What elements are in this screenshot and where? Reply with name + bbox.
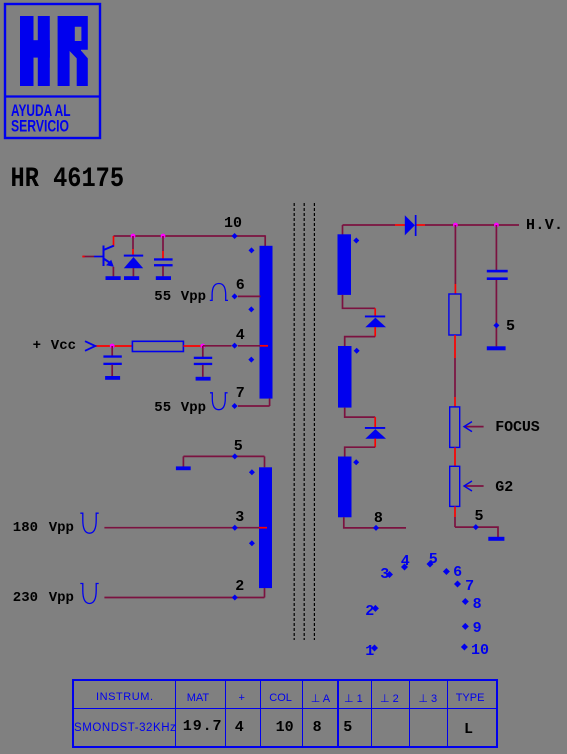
- wire: red stub after HV diode: [416, 224, 425, 226]
- pinout diamond 4: [401, 564, 408, 571]
- tap diamond between 3 and 2: [249, 540, 255, 546]
- secondary winding S1: [338, 234, 352, 295]
- G2 wiper arrow: [464, 481, 484, 491]
- table column line 3: [260, 681, 261, 746]
- label FOCUS: [495, 419, 540, 436]
- node: junction dot cap C2: [110, 344, 115, 349]
- label pin 4: [236, 327, 245, 344]
- node: junction dot on rail (diode branch): [131, 234, 136, 239]
- wire: C3 to ground: [202, 365, 204, 377]
- capacitor C2: [103, 355, 121, 365]
- wire: lead to snubber cap: [162, 236, 164, 259]
- capacitor C4 HV: [487, 270, 508, 280]
- label 230 Vpp: [13, 590, 38, 606]
- table column line 1: [175, 681, 176, 746]
- wire: corner down to secondary S1: [342, 225, 344, 235]
- wire: S2 bottom elbow to diode D4: [345, 408, 376, 418]
- table column line 4: [302, 681, 303, 746]
- ground (C3): [196, 377, 211, 381]
- tap diamond S3: [353, 459, 359, 465]
- table column line 7: [409, 681, 410, 746]
- chassis stub (pin5 return): [176, 466, 191, 470]
- pinout label 4: [401, 553, 410, 570]
- wire: diode to ground: [132, 268, 134, 276]
- pin 3 diamond: [232, 525, 238, 531]
- header ⊥1: [344, 692, 363, 705]
- pinout label 3: [380, 566, 389, 583]
- pin 5 diamond (HV return): [493, 322, 499, 328]
- label G2: [495, 479, 513, 496]
- label pin 6: [236, 277, 245, 294]
- label + Vcc: [33, 338, 41, 354]
- pinout diamond 9: [462, 623, 469, 630]
- pin 4 diamond: [232, 343, 238, 349]
- header INSTRUM.: [96, 691, 154, 703]
- pin 6 diamond: [232, 293, 238, 299]
- pin 5 diamond: [232, 453, 238, 459]
- pinout diamond 1: [371, 645, 378, 652]
- logo letter H: [20, 16, 50, 86]
- wire: cap to ground: [162, 266, 164, 276]
- cell TYPE value L: [464, 721, 473, 738]
- wire: pin 2 row: [104, 597, 264, 599]
- wire: pin 3 row: [104, 527, 259, 529]
- wire: red lead into D3: [374, 308, 376, 315]
- wire: pin5 left drop: [182, 456, 184, 466]
- header ⊥3: [418, 692, 437, 705]
- Vcc arrow chevron: [85, 341, 95, 351]
- diode D2 HV rectifier: [405, 215, 417, 236]
- table column line 8: [447, 681, 448, 746]
- tap diamond between 6 and 4: [248, 306, 254, 312]
- secondary winding S3: [338, 457, 352, 518]
- node: junction dot on rail (cap branch): [161, 234, 166, 239]
- tap diamond S2: [354, 348, 360, 354]
- pinout diamond 3: [386, 571, 393, 578]
- label pin 3: [235, 509, 244, 526]
- svg-text:SERVICIO: SERVICIO: [11, 118, 69, 136]
- wire: elbow to S3 top: [345, 447, 376, 456]
- wire: HV rail: [343, 224, 396, 226]
- tap diamond S1: [353, 238, 359, 244]
- wire: pin2 corner up to W2 bottom: [264, 588, 266, 597]
- label 55 Vpp (pin7): [154, 400, 171, 416]
- wire: lead to bleeder resistor: [454, 225, 456, 294]
- FOCUS wiper arrow: [464, 422, 484, 432]
- wire: lead to damper diode: [132, 236, 134, 255]
- label pin 5 (HV cap): [506, 318, 515, 335]
- tap diamond near pin10: [249, 247, 255, 253]
- pinout label 9: [473, 620, 482, 637]
- pin 10 diamond: [232, 233, 238, 239]
- wire: R2 to FOCUS pot: [454, 335, 456, 407]
- cell ⊥1 value 5: [343, 719, 352, 736]
- capacitor C1 snubber: [154, 258, 173, 266]
- label 180 Vpp: [13, 520, 38, 536]
- cell SMONDST-32KHz: [74, 722, 176, 734]
- ground (damper diode): [124, 276, 139, 280]
- ground (C2): [105, 376, 120, 380]
- pinout diamond 10: [461, 644, 468, 651]
- table frame: [72, 679, 498, 748]
- cell + value 4: [235, 719, 244, 736]
- pin 2 diamond: [232, 595, 238, 601]
- header TYPE: [456, 692, 485, 704]
- wire: HV cap lead: [495, 225, 497, 270]
- wire: red stub before HV diode: [395, 224, 405, 226]
- transistor Q1: [104, 246, 114, 267]
- pinout diamond 2: [372, 605, 379, 612]
- wire: +Vcc red feed: [96, 345, 133, 347]
- waveform symbol 180Vpp (U): [80, 513, 98, 533]
- secondary winding S2: [338, 346, 352, 408]
- tap diamond between 4 and 7: [248, 357, 254, 363]
- pinout label 1: [365, 643, 374, 660]
- wire: pin 7 to winding bottom: [238, 398, 270, 406]
- label pin 2: [235, 578, 244, 595]
- label pin 7: [236, 385, 245, 402]
- resistor R1: [132, 341, 183, 351]
- ground (snubber cap): [156, 276, 171, 280]
- wire: S1 bottom elbow to diode D3: [343, 295, 376, 308]
- pinout label 5: [429, 551, 438, 568]
- cell ⊥A value 8: [313, 719, 322, 736]
- table column line 6: [371, 681, 372, 746]
- node: junction dot resistor chain: [453, 223, 458, 228]
- ground (transistor emitter): [106, 276, 121, 280]
- wire: red lead out of D3: [374, 327, 376, 337]
- wire: top primary rail pin10: [114, 235, 266, 237]
- node: junction dot HV cap: [494, 223, 499, 228]
- label 55 Vpp (pin6): [154, 289, 171, 305]
- wire: pin4 to winding: [238, 345, 260, 347]
- label pin 5 (G2 return): [475, 508, 484, 525]
- svg-text:HR 46175: HR 46175: [11, 164, 125, 195]
- label H.V.: [526, 217, 563, 234]
- wire: red tap overlay on W2: [259, 527, 267, 529]
- transistor base lead: [83, 256, 104, 258]
- label pin 5: [234, 438, 243, 455]
- resistor R2 bleeder: [449, 294, 461, 335]
- wire: red lead out of D4: [374, 439, 376, 448]
- capacitor C3: [194, 357, 212, 365]
- pinout diamond 6: [443, 568, 450, 575]
- ground (HV cap): [487, 346, 506, 350]
- header COL: [269, 692, 292, 704]
- header ⊥2: [380, 692, 399, 705]
- wire: junction to pin4: [203, 345, 232, 347]
- logo letter R: [58, 16, 88, 86]
- pin 8 diamond: [373, 525, 379, 531]
- logo border: [5, 4, 100, 138]
- transistor emitter arrowhead: [106, 260, 114, 267]
- header MAT: [187, 692, 209, 704]
- wire: elbow to S2 top: [345, 337, 376, 346]
- wire: pin 5 rail: [183, 455, 264, 457]
- node: junction dot cap C3: [200, 344, 205, 349]
- wire: corner down to winding W1 top: [264, 235, 266, 246]
- wire: lead to C2: [111, 346, 113, 356]
- wire: S3 bottom to pin 8 row: [344, 517, 406, 528]
- pinout label 2: [365, 603, 374, 620]
- potentiometer FOCUS: [450, 407, 460, 448]
- wire: FOCUS to G2: [454, 447, 456, 466]
- diode D3: [365, 316, 386, 328]
- wire: C2 to ground: [111, 365, 113, 377]
- pinout diamond 5: [427, 561, 434, 568]
- table column line 2: [225, 681, 226, 746]
- diode D1 damper: [124, 255, 143, 269]
- pin 7 diamond: [232, 403, 238, 409]
- pinout label 8: [473, 596, 482, 613]
- wire: collector red stub: [113, 236, 115, 247]
- header +: [239, 692, 245, 704]
- cell MAT value 19.7: [183, 718, 223, 735]
- diode D4: [365, 427, 386, 439]
- wire: red tap overlay on W1: [260, 345, 268, 347]
- pinout diamond 8: [462, 598, 469, 605]
- label pin 8: [374, 510, 383, 527]
- transformer core dashed lines: [294, 203, 314, 640]
- transistor base lead red tip: [82, 256, 84, 258]
- waveform symbol 230Vpp (U): [80, 584, 98, 604]
- wire: emitter to ground: [112, 267, 114, 277]
- wire: pin5 right corner to W2: [264, 456, 266, 467]
- pinout diamond 7: [454, 581, 461, 588]
- tap diamond near pin5: [249, 469, 255, 475]
- wire: resistor to junction red: [183, 345, 202, 347]
- label pin 10: [224, 215, 242, 232]
- wire: G2 to pin5 ground: [455, 506, 498, 537]
- wire: pin 6: [238, 295, 261, 297]
- primary winding W1 (pins 10-6-4-7): [260, 246, 273, 399]
- pinout label 10: [471, 642, 489, 659]
- table row divider: [74, 708, 496, 709]
- waveform symbol pin7 (U): [210, 393, 228, 410]
- wire: C4 to ground through pin5: [495, 280, 497, 346]
- pinout label 6: [453, 564, 462, 581]
- cell COL value 10: [276, 719, 294, 736]
- primary winding W2 (pins 5-3-2): [259, 467, 272, 588]
- pinout label 7: [465, 578, 474, 595]
- header ⊥A: [311, 692, 330, 705]
- wire: HV rail after diode: [425, 224, 519, 226]
- ground (G2 return): [488, 537, 504, 541]
- wire: lead to C3: [202, 346, 204, 357]
- pin 5 diamond (G2 return): [473, 524, 479, 530]
- potentiometer G2: [450, 466, 460, 506]
- wire: red lead into D4: [374, 417, 376, 427]
- waveform symbol pin6 (bell): [210, 284, 228, 301]
- table column line 5: [337, 681, 338, 746]
